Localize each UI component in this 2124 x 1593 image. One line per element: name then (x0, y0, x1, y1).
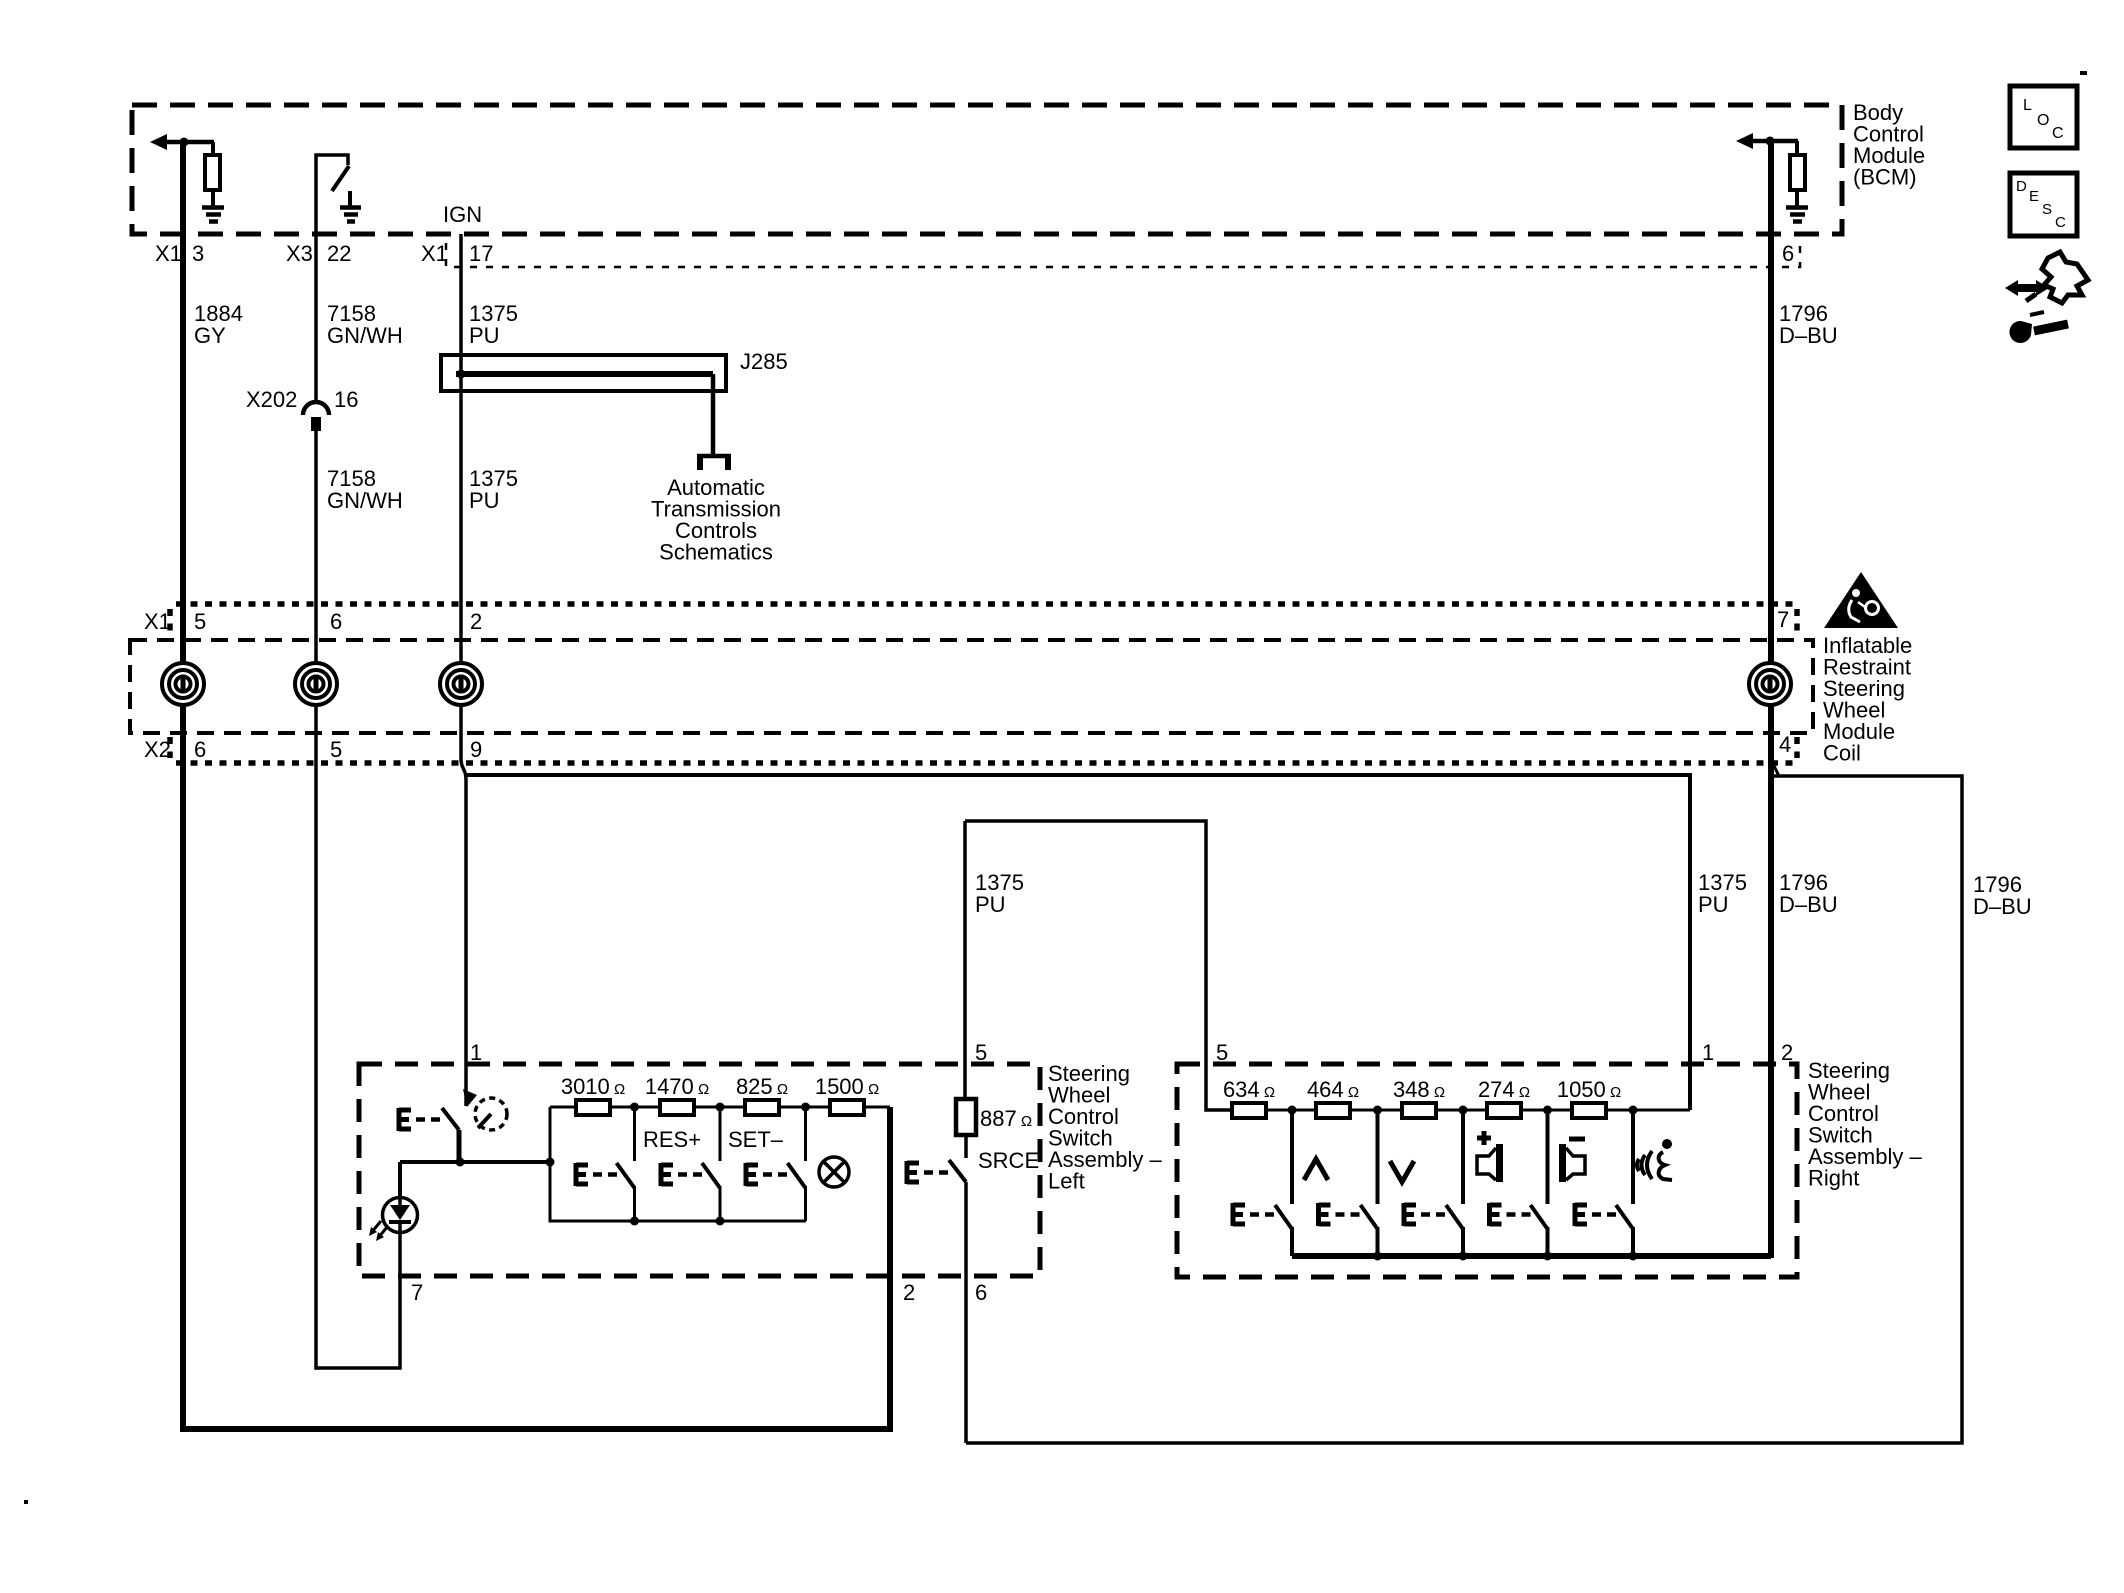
svg-text:6: 6 (194, 737, 206, 762)
svg-text:D–BU: D–BU (1779, 892, 1838, 917)
svg-text:D–BU: D–BU (1779, 323, 1838, 348)
svg-text:4: 4 (1779, 732, 1791, 757)
svg-text:274 Ω: 274 Ω (1478, 1077, 1530, 1102)
svg-text:PU: PU (469, 323, 500, 348)
svg-text:J285: J285 (740, 349, 788, 374)
svg-text:2: 2 (1781, 1040, 1793, 1065)
svg-text:Schematics: Schematics (659, 540, 773, 565)
svg-text:464 Ω: 464 Ω (1307, 1077, 1359, 1102)
svg-text:C: C (2052, 125, 2064, 142)
svg-text:348 Ω: 348 Ω (1393, 1077, 1445, 1102)
svg-text:5: 5 (194, 609, 206, 634)
svg-text:3: 3 (192, 241, 204, 266)
svg-text:X1: X1 (155, 241, 182, 266)
svg-text:17: 17 (469, 241, 493, 266)
svg-text:1500 Ω: 1500 Ω (815, 1074, 879, 1099)
svg-text:2: 2 (470, 609, 482, 634)
svg-text:X1: X1 (144, 609, 171, 634)
svg-text:16: 16 (334, 387, 358, 412)
svg-text:PU: PU (1698, 892, 1729, 917)
svg-text:GY: GY (194, 323, 226, 348)
svg-text:1050 Ω: 1050 Ω (1557, 1077, 1621, 1102)
svg-text:7: 7 (411, 1280, 423, 1305)
svg-text:X3: X3 (286, 241, 313, 266)
svg-text:E: E (2029, 188, 2039, 205)
svg-text:2: 2 (903, 1280, 915, 1305)
svg-text:6: 6 (1782, 241, 1794, 266)
svg-text:Left: Left (1048, 1169, 1085, 1194)
svg-text:1470 Ω: 1470 Ω (645, 1074, 709, 1099)
svg-text:X2: X2 (144, 737, 171, 762)
svg-text:6: 6 (975, 1280, 987, 1305)
svg-text:IGN: IGN (443, 202, 482, 227)
svg-text:GN/WH: GN/WH (327, 323, 403, 348)
svg-text:L: L (2023, 97, 2032, 114)
svg-text:6: 6 (330, 609, 342, 634)
svg-text:PU: PU (975, 892, 1006, 917)
svg-text:825 Ω: 825 Ω (736, 1074, 788, 1099)
svg-text:S: S (2042, 201, 2052, 218)
svg-text:SRCE: SRCE (978, 1148, 1039, 1173)
svg-text:887 Ω: 887 Ω (980, 1106, 1032, 1131)
svg-text:1: 1 (1702, 1040, 1714, 1065)
svg-text:O: O (2037, 112, 2049, 129)
svg-text:7: 7 (1777, 607, 1789, 632)
svg-text:Coil: Coil (1823, 741, 1861, 766)
svg-text:5: 5 (975, 1040, 987, 1065)
svg-text:SET–: SET– (728, 1127, 784, 1152)
svg-text:X202: X202 (246, 387, 297, 412)
svg-text:RES+: RES+ (643, 1127, 701, 1152)
svg-text:(BCM): (BCM) (1853, 165, 1917, 190)
svg-text:3010 Ω: 3010 Ω (561, 1074, 625, 1099)
svg-text:D–BU: D–BU (1973, 894, 2032, 919)
svg-text:PU: PU (469, 488, 500, 513)
svg-text:C: C (2055, 214, 2066, 231)
svg-text:5: 5 (1216, 1040, 1228, 1065)
svg-text:X1: X1 (421, 241, 448, 266)
svg-text:22: 22 (327, 241, 351, 266)
svg-text:9: 9 (470, 737, 482, 762)
svg-text:1: 1 (470, 1040, 482, 1065)
svg-text:634 Ω: 634 Ω (1223, 1077, 1275, 1102)
svg-text:D: D (2016, 178, 2027, 195)
svg-text:Right: Right (1808, 1166, 1859, 1191)
svg-text:5: 5 (330, 737, 342, 762)
svg-text:GN/WH: GN/WH (327, 488, 403, 513)
